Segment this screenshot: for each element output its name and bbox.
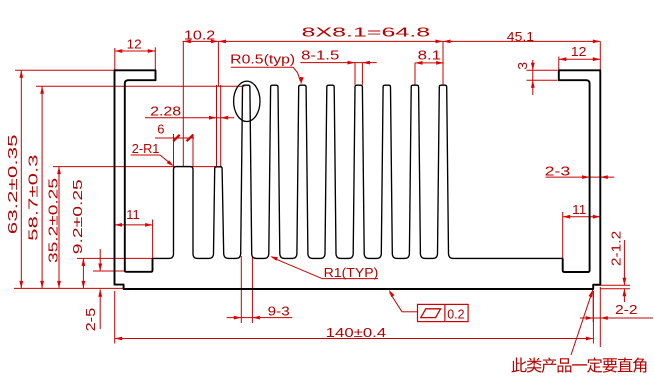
extension line bottom left [14,287,123,289]
dim 8.1 [415,48,444,85]
svg-text:2-2: 2-2 [615,302,638,317]
dim 8-1.5 [300,48,376,85]
dim text 8X8.1=64.8 [302,24,431,39]
svg-text:2-5: 2-5 [83,308,98,332]
svg-text:8.1: 8.1 [418,48,442,63]
svg-text:2-1.2: 2-1.2 [608,231,623,266]
svg-text:8X8.1=64.8: 8X8.1=64.8 [302,24,431,39]
svg-text:10.2: 10.2 [184,27,215,42]
dim 58.7±0.3 vertical line [26,86,44,288]
flatness leader [389,290,418,312]
extension line 35.2 at block tops [53,166,222,168]
dim chain line 10.2 8X8.1 45.1 [183,40,601,44]
dim 3 right flange [515,60,557,95]
dim 9-3 [227,256,293,323]
dim 2-3 [545,164,615,179]
svg-text:63.2±0.35: 63.2±0.35 [5,134,20,234]
svg-text:R1(TYP): R1(TYP) [324,265,379,280]
dim text 10.2 [184,27,215,42]
extension line top 63.2 [15,69,115,71]
label 2-R1 leader [131,141,174,167]
dim text 45.1 [507,29,534,44]
extension line fin8 center [442,41,444,84]
dim 2-5 vertical line [83,249,102,331]
svg-text:11: 11 [126,207,140,222]
dim 9.2±0.25 vertical line [70,179,85,288]
svg-text:3: 3 [515,62,530,70]
svg-text:12: 12 [571,44,587,59]
note leader bottom right [571,290,593,355]
heatsink profile: outer shell walls flanges and base [115,70,601,289]
dim 63.2±0.35 vertical line [5,70,23,288]
detail ellipse around fin tip R0.5 [234,81,260,121]
extension line block center [182,41,184,166]
svg-text:2-3: 2-3 [545,164,571,179]
dim 12 top-left [115,36,156,70]
svg-text:12: 12 [127,36,142,51]
svg-text:45.1: 45.1 [507,29,534,44]
extension line 9.2 at shelf [77,257,153,259]
dim 35.2±0.25 vertical line [46,167,61,289]
note text 此类产品一定要直角 [512,357,647,372]
extension line short fin center [217,41,219,86]
svg-text:58.7±0.3: 58.7±0.3 [26,154,41,241]
label R1(TYP) leader [270,256,378,280]
dim 12 top-right [559,44,601,70]
svg-text:R0.5(typ): R0.5(typ) [230,52,295,67]
svg-text:8-1.5: 8-1.5 [301,48,339,63]
flatness tolerance frame 0.2 [418,304,469,321]
extension line 58.7 at fin tops [36,85,244,87]
svg-text:35.2±0.25: 35.2±0.25 [46,178,61,263]
extension line right wall top [599,41,601,70]
label R0.5(typ) leader [230,52,304,85]
dim 6 [155,122,194,167]
svg-text:11: 11 [572,202,586,217]
heatsink profile: fins and middle section [153,85,563,258]
dim 11 left [115,207,153,258]
dim 140±0.4 [115,291,594,344]
dim 2-1.2 [595,231,630,302]
extension line 2-5 pocket floor [93,270,125,272]
svg-text:2-R1: 2-R1 [132,141,160,156]
svg-text:0.2: 0.2 [447,306,464,321]
svg-text:9-3: 9-3 [268,303,290,318]
svg-text:6: 6 [157,122,164,137]
svg-text:9.2±0.25: 9.2±0.25 [70,179,85,254]
svg-text:2.28: 2.28 [150,103,181,118]
dim 2.28 [145,85,234,167]
svg-text:140±0.4: 140±0.4 [326,325,387,340]
dim 11 right [563,202,601,258]
dim 2-2 [580,287,653,347]
